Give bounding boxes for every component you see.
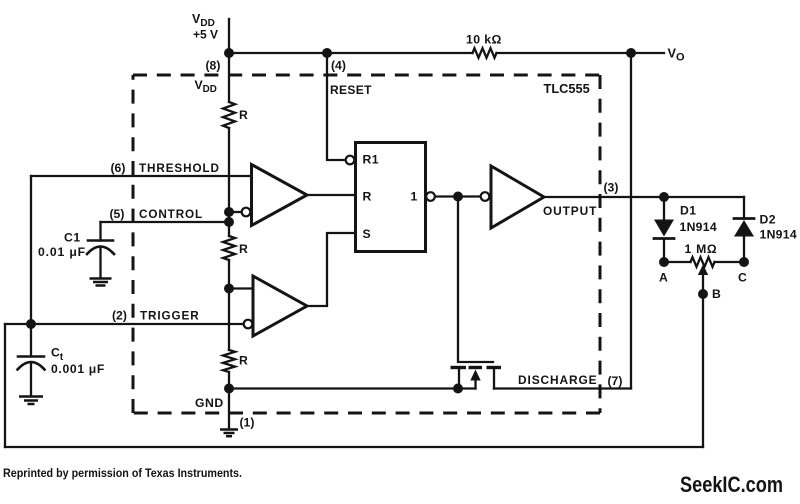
wire divider between R2 and R3: [228, 260, 230, 350]
junction dot divider at control: [224, 217, 234, 227]
svg-text:D1: D1: [680, 204, 696, 218]
ground below Ct: [19, 397, 43, 405]
wire comparator2 noninverting stub: [229, 287, 253, 289]
junction dot divider at comparator1 bubble: [224, 207, 234, 217]
wire comparator2 output to latch S: [307, 233, 356, 306]
junction dot rail at VO: [626, 48, 636, 58]
comparator U1B trigger: [253, 276, 307, 336]
wire D2 drop: [743, 197, 745, 218]
svg-text:B: B: [712, 287, 721, 301]
wire divider to ground pin: [228, 372, 230, 428]
svg-text:(2): (2): [112, 309, 127, 323]
wire trigger: [5, 323, 243, 325]
comparator U1A threshold: [252, 165, 308, 226]
svg-text:VDD: VDD: [195, 78, 217, 95]
svg-text:GND: GND: [195, 396, 224, 410]
wire output to diode network: [544, 196, 744, 198]
diode D2: [734, 219, 754, 263]
wire MOSFET drain: [493, 369, 495, 389]
svg-text:(3): (3): [604, 181, 619, 195]
svg-text:OUTPUT: OUTPUT: [543, 204, 597, 218]
svg-text:D2: D2: [760, 213, 776, 227]
svg-text:10 kΩ: 10 kΩ: [466, 33, 502, 47]
svg-text:SeekIC.com: SeekIC.com: [680, 472, 783, 497]
ground below C1: [90, 279, 112, 286]
junction dot source at ground rail: [453, 384, 463, 394]
capacitor C1: [87, 222, 114, 278]
junction dot latch output: [453, 192, 463, 202]
label Ct value: [51, 346, 105, 376]
svg-text:A: A: [659, 271, 668, 285]
svg-text:0.001 μF: 0.001 μF: [51, 362, 105, 376]
bubble latch R1 input: [346, 156, 355, 165]
wire control: [101, 221, 230, 223]
bubble inverter input: [481, 192, 490, 201]
junction dot node B: [698, 289, 708, 299]
svg-text:(8): (8): [206, 59, 221, 73]
svg-text:C: C: [738, 271, 747, 285]
wire divider chain upper: [228, 53, 230, 102]
capacitor Ct: [18, 324, 45, 397]
potentiometer 1 MOhm body: [691, 257, 715, 267]
diode D1: [654, 220, 674, 263]
bubble latch output: [426, 192, 435, 201]
wire VO vertical to discharge: [630, 53, 632, 389]
bubble comparator1 inverting input: [242, 208, 251, 217]
junction dot output at D1: [659, 192, 669, 202]
ground below pin 1: [220, 430, 238, 437]
svg-text:+5 V: +5 V: [193, 27, 218, 41]
svg-text:(4): (4): [331, 59, 346, 73]
resistor R upper divider: [223, 102, 235, 128]
wire top rail right segment: [497, 52, 665, 54]
svg-text:1N914: 1N914: [760, 228, 797, 242]
wire D1 anode drop: [663, 197, 665, 220]
svg-text:Reprinted by permission of Tex: Reprinted by permission of Texas Instrum…: [3, 468, 242, 480]
wire discharge to VO vertical: [494, 387, 631, 389]
svg-text:CONTROL: CONTROL: [139, 208, 203, 221]
MOSFET body arrow: [470, 370, 480, 389]
node VDD supply label: [192, 12, 218, 41]
svg-text:(1): (1): [240, 416, 255, 430]
wire comparator1 output to latch R: [307, 194, 356, 196]
junction dot rail at VDD stem: [224, 48, 234, 58]
transistor Q1 discharge MOSFET channel: [451, 366, 502, 369]
svg-text:R: R: [363, 190, 372, 204]
resistor R middle divider: [223, 236, 235, 260]
svg-text:TRIGGER: TRIGGER: [140, 310, 200, 323]
svg-text:R: R: [239, 242, 248, 256]
label D2: [760, 213, 797, 242]
svg-text:1: 1: [411, 190, 418, 204]
svg-text:DISCHARGE: DISCHARGE: [518, 373, 597, 387]
svg-text:(5): (5): [110, 207, 125, 221]
wire left branch vertical: [30, 176, 32, 324]
svg-text:S: S: [363, 227, 371, 241]
wire threshold: [31, 175, 252, 177]
svg-text:Ct: Ct: [51, 346, 64, 364]
wire MOSFET source: [458, 369, 460, 389]
svg-text:R1: R1: [363, 153, 380, 167]
svg-text:(6): (6): [111, 161, 126, 175]
svg-text:1 MΩ: 1 MΩ: [685, 242, 718, 256]
wire C side of pot: [715, 261, 745, 263]
svg-text:THRESHOLD: THRESHOLD: [139, 162, 220, 175]
IC boundary TLC555 dashed box: [133, 75, 600, 413]
svg-text:VO: VO: [668, 45, 686, 63]
junction dot node A: [659, 257, 669, 267]
potentiometer wiper arrow: [698, 265, 708, 295]
wire bottom return: [5, 446, 703, 448]
svg-text:1N914: 1N914: [680, 220, 717, 234]
wire ground rail: [229, 387, 476, 389]
label C1 value: [38, 231, 86, 260]
label D1: [680, 204, 717, 235]
wire outer left vertical: [4, 324, 6, 447]
junction dot ground rail at divider: [224, 384, 234, 394]
junction dot trigger / threshold branch: [26, 319, 36, 329]
bubble comparator2 inverting input: [244, 320, 253, 329]
wire VDD stem: [228, 19, 230, 53]
latch U2 SR box: [356, 143, 426, 252]
wire node B to bottom return: [702, 294, 704, 447]
wire comparator1 inverting stub: [229, 211, 241, 213]
wire gate feed to discharge transistor: [458, 197, 493, 363]
junction dot node C: [739, 257, 749, 267]
junction dot rail at reset: [322, 48, 332, 58]
wire latch output to inverter: [436, 195, 481, 197]
wire divider between R1 and R2: [228, 128, 230, 236]
junction dot divider at comparator2: [224, 284, 234, 294]
svg-text:RESET: RESET: [330, 83, 372, 97]
svg-text:TLC555: TLC555: [544, 81, 590, 96]
svg-text:0.01 μF: 0.01 μF: [38, 245, 86, 259]
svg-text:R: R: [239, 108, 248, 122]
svg-text:C1: C1: [64, 231, 81, 245]
svg-text:(7): (7): [608, 374, 623, 388]
svg-text:R: R: [239, 354, 248, 368]
resistor 10 kOhm: [473, 48, 497, 58]
inverter U3 output buffer: [491, 166, 544, 228]
wire A side of pot: [664, 261, 691, 263]
wire reset drop from rail: [327, 53, 345, 160]
resistor R lower divider: [223, 350, 235, 372]
wire top rail left segment: [229, 52, 473, 54]
